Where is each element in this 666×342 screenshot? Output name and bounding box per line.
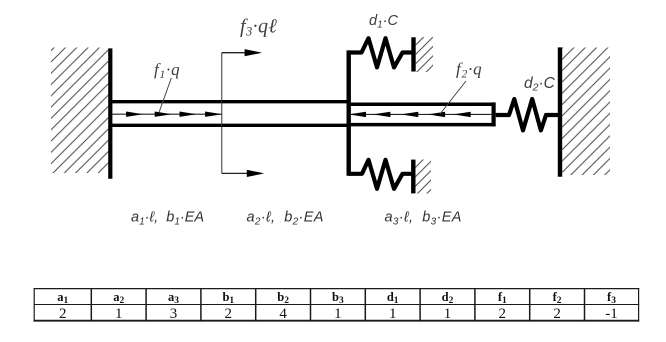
svg-text:1: 1 [334, 306, 342, 322]
svg-text:f3·qℓ: f3·qℓ [240, 16, 277, 39]
svg-text:1: 1 [389, 306, 397, 322]
svg-text:f1·q: f1·q [154, 60, 180, 81]
svg-text:2: 2 [225, 306, 233, 322]
svg-text:d2·C: d2·C [524, 75, 556, 94]
svg-text:d1·C: d1·C [369, 13, 398, 31]
svg-text:4: 4 [279, 306, 287, 322]
svg-text:2: 2 [553, 306, 561, 322]
svg-text:3: 3 [170, 306, 178, 322]
svg-text:f2·q: f2·q [456, 60, 482, 81]
svg-text:1: 1 [115, 306, 123, 322]
svg-text:2: 2 [499, 306, 507, 322]
svg-text:1: 1 [444, 306, 452, 322]
svg-text:2: 2 [59, 306, 67, 322]
svg-text:-1: -1 [605, 306, 618, 322]
